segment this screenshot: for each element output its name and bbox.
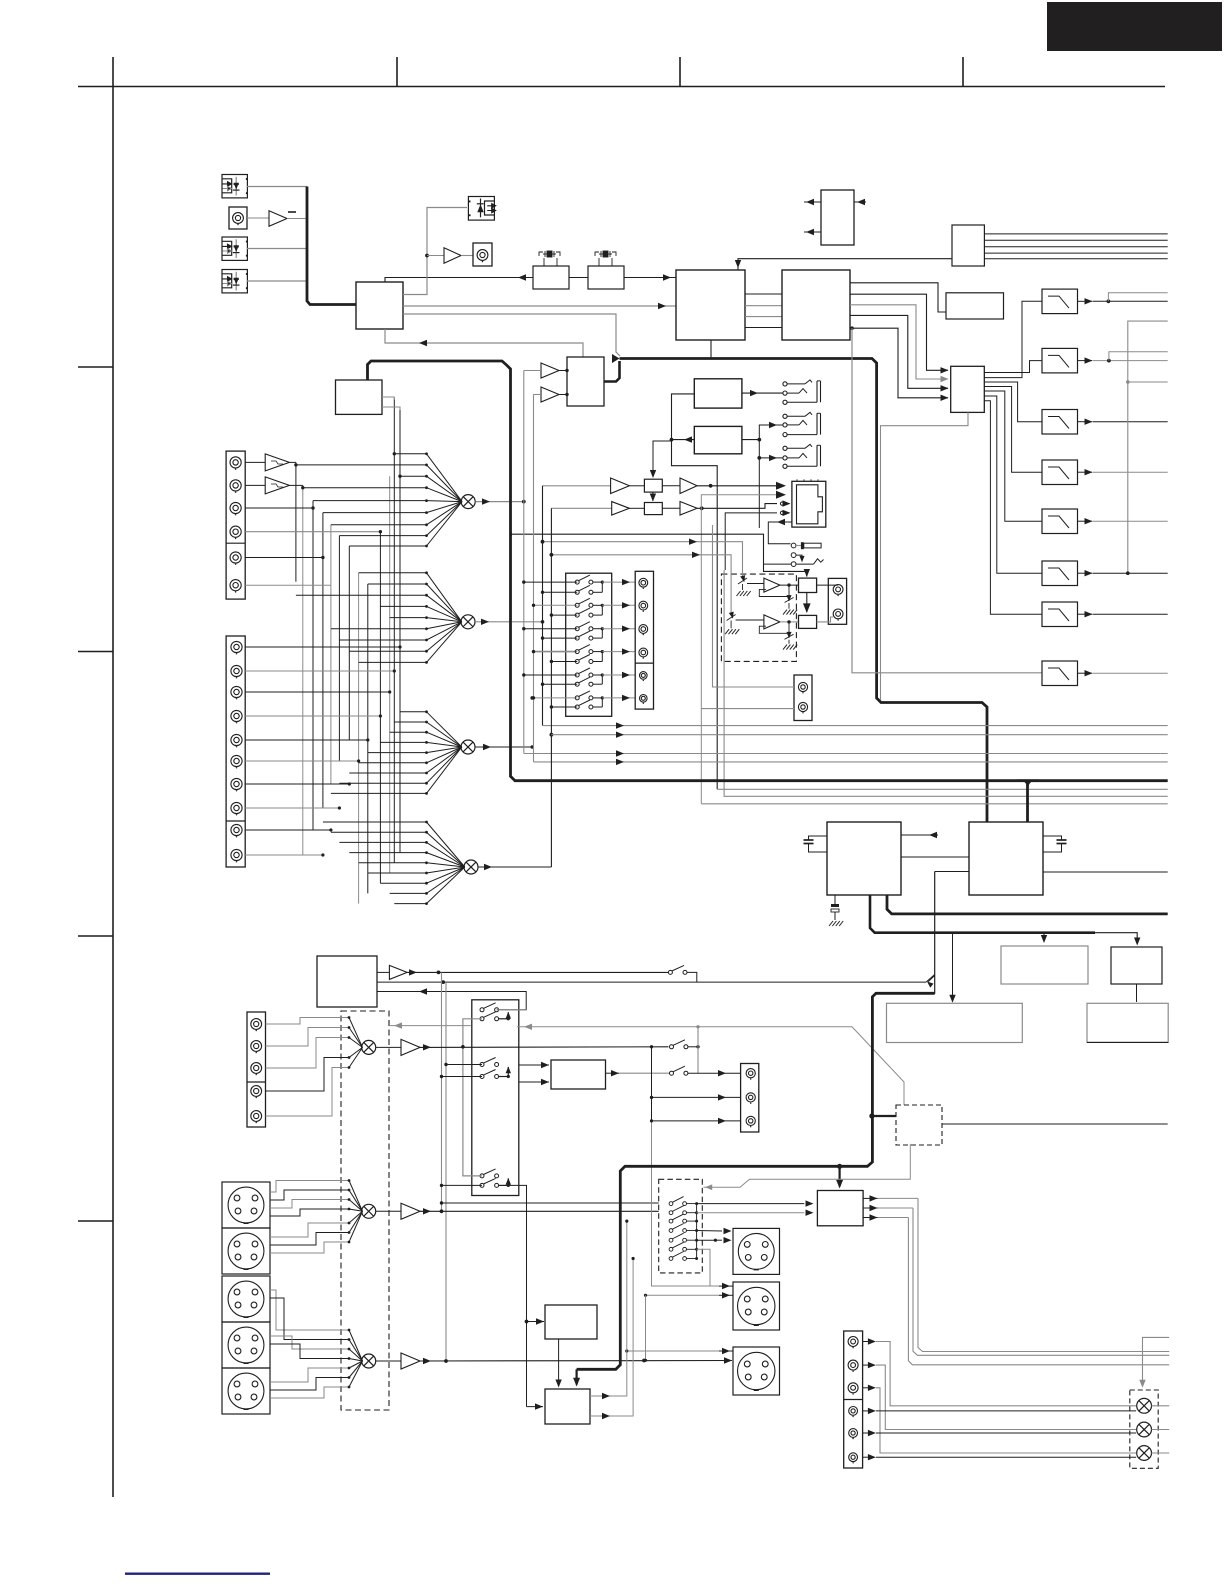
mixer M10 xyxy=(1137,1446,1152,1461)
dsp select box U25 xyxy=(336,380,383,414)
main dsp U27 xyxy=(969,822,1043,895)
wire ladder vertical xyxy=(348,546,350,740)
wire xyxy=(1152,1452,1170,1454)
wire tape play xyxy=(407,971,668,973)
wire xyxy=(984,252,1167,254)
wire staircase c2 xyxy=(876,1365,1136,1429)
wire xyxy=(463,1019,482,1176)
level box U14 xyxy=(629,507,644,509)
wire xyxy=(1136,984,1138,1002)
headphone amp U12 xyxy=(694,426,742,453)
wire xyxy=(697,1249,719,1286)
trigger box U23 xyxy=(545,1305,597,1339)
wire ladder vertical xyxy=(389,476,391,873)
supply box U31 xyxy=(1087,1003,1168,1042)
thick out U26 xyxy=(887,895,1168,914)
mixer fan B xyxy=(270,1181,349,1193)
buffer A14 xyxy=(376,1360,401,1362)
analog input strip J13 xyxy=(226,451,245,599)
wire xyxy=(984,239,1167,241)
selector bus xyxy=(696,1204,698,1259)
switch pair xyxy=(534,697,578,699)
wire grey trio 3b xyxy=(701,803,1167,805)
wire xyxy=(651,1047,653,1121)
wire xyxy=(245,691,390,693)
wire xyxy=(534,394,542,396)
wire monitor return xyxy=(377,992,526,1010)
trigger box U24 xyxy=(545,1389,590,1424)
wire xyxy=(652,1121,720,1286)
buffer A7 xyxy=(551,507,611,509)
wire xyxy=(759,440,783,458)
control box U8 xyxy=(821,190,854,245)
wire line2 to opamp1 xyxy=(543,542,743,576)
wire xyxy=(863,1341,868,1343)
digital input bus (thick) xyxy=(307,187,356,305)
wire xyxy=(478,866,551,868)
wire xyxy=(850,283,946,312)
selector switch xyxy=(669,1206,686,1215)
border tick left 4 xyxy=(78,1220,113,1222)
wire U12 out xyxy=(742,439,759,441)
wire xyxy=(918,1198,1169,1351)
wire xyxy=(984,233,1167,235)
mute relay box U21 xyxy=(817,1191,863,1226)
mixer bank (dashed) xyxy=(1130,1390,1158,1468)
power box U28 xyxy=(1001,946,1088,984)
wire c5 xyxy=(876,1432,1136,1434)
wire xyxy=(245,507,313,509)
wire xyxy=(534,761,1168,763)
wire xyxy=(627,1350,719,1352)
mixer M8 xyxy=(1137,1398,1152,1413)
multi fan box (dashed) xyxy=(341,1011,389,1410)
wire demux out xyxy=(984,301,1042,377)
footer link line xyxy=(125,1573,270,1575)
wire xyxy=(245,854,323,856)
thick bus to relay xyxy=(837,1164,842,1169)
buffer A12 xyxy=(376,1046,401,1048)
zone tap vertical xyxy=(697,1027,699,1073)
mixer fan 3 xyxy=(331,710,462,794)
switch pair xyxy=(534,604,578,606)
wire xyxy=(850,315,948,388)
low-pass filter F6 xyxy=(1042,561,1078,586)
wire thick to tape xyxy=(928,976,935,982)
wire to rec out xyxy=(602,581,635,583)
wire to rec out xyxy=(602,674,635,676)
wire xyxy=(245,670,394,672)
wire xyxy=(245,584,331,586)
headphone amp U11 xyxy=(694,379,742,408)
feedback loop xyxy=(759,585,789,596)
wire xyxy=(1043,871,1168,873)
switch grid SW2 xyxy=(472,1000,519,1196)
bus vertical v4 xyxy=(550,508,552,867)
switch S7 xyxy=(668,965,687,974)
rec out strip J15 xyxy=(635,571,653,709)
wire xyxy=(725,513,777,570)
wire xyxy=(942,1123,1168,1125)
low-pass filter F5 xyxy=(1042,509,1078,534)
wire xyxy=(1078,672,1093,674)
selector switch xyxy=(669,1214,686,1223)
trim switch S4 xyxy=(788,597,790,602)
mixer M5 xyxy=(362,1040,376,1054)
wire ladder vertical xyxy=(393,398,395,863)
wire xyxy=(1078,421,1093,423)
buffer A11 xyxy=(377,971,389,973)
mixer fan A xyxy=(266,1018,350,1025)
wire ladder vertical xyxy=(399,408,401,853)
wire g3 row2 left xyxy=(442,1184,483,1186)
wire xyxy=(697,1230,722,1233)
wire xyxy=(245,783,349,785)
gain box U18 xyxy=(799,615,817,628)
wire demux out xyxy=(984,391,1042,521)
phono amp A10 xyxy=(245,484,265,486)
wire xyxy=(247,186,307,188)
wire balanced send xyxy=(420,1360,732,1363)
wire xyxy=(442,1076,483,1078)
wire xyxy=(475,746,532,748)
pre out strip J25 xyxy=(844,1331,863,1468)
wire xyxy=(524,370,541,372)
cap C2 xyxy=(1043,836,1062,840)
wire xyxy=(952,933,954,1002)
wire xyxy=(850,326,854,330)
wire xyxy=(697,1239,716,1241)
wire xyxy=(1108,293,1167,302)
demux U10 xyxy=(951,366,985,412)
wire xyxy=(1087,1041,1168,1043)
wire xyxy=(687,972,697,982)
wire xyxy=(742,392,783,394)
wire xyxy=(551,734,1167,736)
wire xyxy=(519,1064,549,1066)
wire to rec out xyxy=(602,628,635,630)
coaxial output J6 xyxy=(473,243,492,266)
mixer M4 xyxy=(464,860,478,874)
border tick left 2 xyxy=(78,651,113,653)
main audio bus (thick) xyxy=(620,359,988,823)
wire xyxy=(863,1364,868,1366)
wire xyxy=(590,1221,627,1396)
wire xyxy=(713,525,795,687)
wire xyxy=(697,485,777,487)
wire xyxy=(1109,352,1168,361)
wire xyxy=(759,425,783,440)
zone out connector J12 xyxy=(794,675,812,721)
balanced input J19 xyxy=(222,1228,270,1274)
level box U13 xyxy=(629,485,644,487)
wire xyxy=(745,293,782,295)
op-amp U15 xyxy=(747,583,764,585)
wire demux out xyxy=(984,401,1042,614)
mixer M1 xyxy=(461,495,475,509)
wire xyxy=(701,708,794,710)
mixer M6 xyxy=(362,1204,376,1218)
op-amp U17 xyxy=(736,619,764,621)
modular jack J10 xyxy=(792,481,826,527)
wire xyxy=(817,584,838,586)
buffer A13 xyxy=(376,1210,401,1212)
wire ladder vertical xyxy=(338,536,340,761)
optical input J1 xyxy=(222,175,247,198)
buffer A2 xyxy=(444,248,461,264)
node xyxy=(650,1045,653,1048)
switch pair xyxy=(480,1169,499,1178)
detector box (dashed) U22 xyxy=(896,1105,942,1145)
optical output J5 xyxy=(468,197,494,221)
supply box U30 xyxy=(887,1003,1023,1042)
thick stub xyxy=(869,1113,874,1118)
wire xyxy=(854,201,866,203)
wire xyxy=(497,1009,527,1011)
balanced out J24 xyxy=(733,1347,780,1395)
zone2 out strip J17 xyxy=(741,1064,759,1133)
wire xyxy=(745,305,782,307)
wire xyxy=(558,1339,560,1386)
wire xyxy=(780,584,799,586)
title block (filled) xyxy=(1047,2,1222,51)
wire demux out xyxy=(984,387,1042,473)
border left line xyxy=(112,57,114,1497)
detector feedback xyxy=(704,1144,911,1187)
wire xyxy=(245,557,323,559)
wire ladder vertical xyxy=(312,501,314,830)
mixer fan C xyxy=(270,1290,349,1330)
wire xyxy=(1078,520,1093,522)
border tick top 1 xyxy=(396,57,398,87)
low-pass filter F1 xyxy=(1042,289,1078,314)
wire xyxy=(1152,1429,1170,1431)
wire U1 aux xyxy=(403,314,620,356)
wire S1->S2 arrow xyxy=(806,593,808,613)
wire U1 bottom xyxy=(385,329,583,357)
node xyxy=(1107,359,1111,363)
switch pair xyxy=(524,581,577,583)
wire xyxy=(569,277,588,279)
wire ladder vertical xyxy=(302,488,304,855)
DSP U6 xyxy=(782,270,850,340)
tape vertical b xyxy=(445,982,447,1361)
digital filter U2 xyxy=(533,266,569,289)
wire xyxy=(446,1064,482,1066)
control line from bus xyxy=(511,532,513,536)
wire to rec out xyxy=(602,604,635,606)
analog input strip J14 xyxy=(226,636,245,867)
wire sel feed xyxy=(442,1202,659,1204)
wire xyxy=(245,715,380,717)
wire to rec out xyxy=(602,697,635,699)
wire grey trio 3 xyxy=(717,788,1167,790)
volume pot RV1 xyxy=(791,543,796,548)
wire xyxy=(652,1096,741,1098)
headphone jack J7 xyxy=(783,382,787,386)
switch pair xyxy=(524,674,577,676)
node xyxy=(1107,299,1111,303)
coaxial input J2 xyxy=(229,207,247,229)
low-pass filter F3 xyxy=(1042,410,1078,435)
bus feedback wire xyxy=(1128,321,1168,573)
headphone jack J9 xyxy=(783,446,787,450)
detect switch S1 xyxy=(791,553,796,558)
border tick top 3 xyxy=(962,57,964,87)
wire U1 to U4 xyxy=(403,305,676,307)
wire xyxy=(850,294,948,370)
wire xyxy=(758,458,760,528)
wire xyxy=(245,646,400,648)
mixer fan 2 xyxy=(296,571,462,663)
wire g3 to triggers xyxy=(508,1185,526,1406)
mixer M2 xyxy=(461,615,475,629)
node xyxy=(541,620,545,624)
wire xyxy=(606,1072,620,1074)
ground xyxy=(730,621,732,629)
wire xyxy=(863,1197,877,1199)
wire xyxy=(427,255,444,257)
wire to det box xyxy=(517,1027,904,1105)
wire xyxy=(913,1208,1169,1355)
wire staircase c3 xyxy=(876,1388,1136,1453)
wire xyxy=(863,1410,868,1412)
wire xyxy=(646,1294,720,1296)
wire xyxy=(863,1217,877,1219)
wire xyxy=(527,1321,545,1323)
digital receiver U1 xyxy=(356,282,403,329)
mixer fan 4 xyxy=(323,821,465,905)
wire demux bottom xyxy=(881,412,969,700)
buffer A8 xyxy=(662,507,680,509)
wire ladder vertical xyxy=(330,525,332,784)
monitor feed arrow xyxy=(389,1025,471,1027)
border tick left 3 xyxy=(78,935,113,937)
wire xyxy=(287,218,307,220)
balanced input J22 xyxy=(222,1368,270,1414)
wire detect tap xyxy=(653,441,672,477)
wire xyxy=(780,621,799,623)
balanced out J22b xyxy=(733,1228,780,1274)
wire xyxy=(863,1207,877,1209)
switch S8 xyxy=(670,1040,688,1049)
bus junction wedge xyxy=(612,354,620,363)
low-pass filter F8 xyxy=(1042,661,1078,686)
wire xyxy=(804,231,821,233)
phono amp A9 xyxy=(245,461,265,463)
wire xyxy=(850,305,948,379)
buffer A5 xyxy=(543,485,611,487)
low-pass filter F7 xyxy=(1042,602,1078,627)
wire xyxy=(745,327,782,329)
ground xyxy=(742,584,744,590)
wire ladder vertical xyxy=(367,584,369,893)
wire demux out xyxy=(984,396,1042,573)
buffer A6 xyxy=(662,485,680,487)
wire xyxy=(863,1432,868,1434)
wire xyxy=(1128,381,1168,383)
wire xyxy=(1078,300,1093,302)
wire link xyxy=(645,1295,647,1360)
ground xyxy=(788,640,790,644)
low-pass filter F4 xyxy=(1042,460,1078,485)
wire xyxy=(245,531,380,533)
wire U26 down (thick) xyxy=(870,895,1095,933)
border top line xyxy=(78,86,1165,88)
wire xyxy=(804,201,821,203)
wire U1 top out xyxy=(385,278,533,283)
wire c4 xyxy=(876,1410,1136,1412)
wire to LPF8 xyxy=(852,328,1042,673)
wire xyxy=(543,725,1168,727)
switch pair xyxy=(524,628,577,630)
wire hp feed xyxy=(672,394,718,789)
wire xyxy=(420,1210,659,1212)
trim switch S5 xyxy=(731,613,733,619)
wire xyxy=(1078,471,1093,473)
optical input J4 xyxy=(222,270,247,293)
node xyxy=(425,254,429,258)
wire xyxy=(247,280,307,282)
wire xyxy=(247,217,269,219)
thick return bus xyxy=(935,871,969,873)
wire xyxy=(764,563,792,565)
bus vertical v1 xyxy=(523,371,525,754)
wire line3 to opamp2 xyxy=(551,555,731,613)
wire xyxy=(984,258,1167,260)
cap C1 xyxy=(809,836,828,840)
wire xyxy=(590,1259,633,1417)
trim switch S3 xyxy=(743,576,745,582)
output selector (dashed) SW3 xyxy=(659,1179,703,1273)
balanced input J20 xyxy=(222,1276,270,1322)
wire grey trio 2 xyxy=(724,570,1168,796)
buffer A4 xyxy=(541,387,559,402)
trim switch S6 xyxy=(788,633,790,638)
wire xyxy=(524,753,1168,755)
bus vertical v3 xyxy=(542,486,544,726)
wire tape out xyxy=(377,981,926,983)
record selector U5 xyxy=(567,357,604,406)
wire xyxy=(652,492,654,501)
feedback loop xyxy=(759,622,789,633)
wire xyxy=(1078,613,1093,615)
wire rj45 return xyxy=(768,522,792,544)
wire ladder vertical xyxy=(295,465,297,582)
balanced input J21 xyxy=(222,1322,270,1368)
input switch matrix SW1 xyxy=(566,573,612,716)
line out connector J11 xyxy=(828,578,846,624)
wire diag join xyxy=(926,975,935,983)
tape vertical a xyxy=(441,972,443,1211)
selector switch xyxy=(669,1252,686,1261)
ground xyxy=(788,603,790,609)
wire c6 xyxy=(876,1456,1136,1458)
wire U4 top in xyxy=(738,259,952,270)
main dsp U26 xyxy=(827,822,901,895)
wire ladder vertical xyxy=(358,573,360,904)
wire xyxy=(1078,572,1093,574)
headphone jack J8 xyxy=(783,414,787,418)
DSP U4 xyxy=(676,270,745,340)
balanced input J18 xyxy=(222,1182,270,1228)
wire xyxy=(461,255,473,257)
wire xyxy=(697,504,777,509)
wire xyxy=(475,621,542,623)
detect switch S2 xyxy=(791,562,796,567)
low-pass filter F2 xyxy=(1042,348,1078,373)
balanced out J23 xyxy=(733,1282,780,1330)
